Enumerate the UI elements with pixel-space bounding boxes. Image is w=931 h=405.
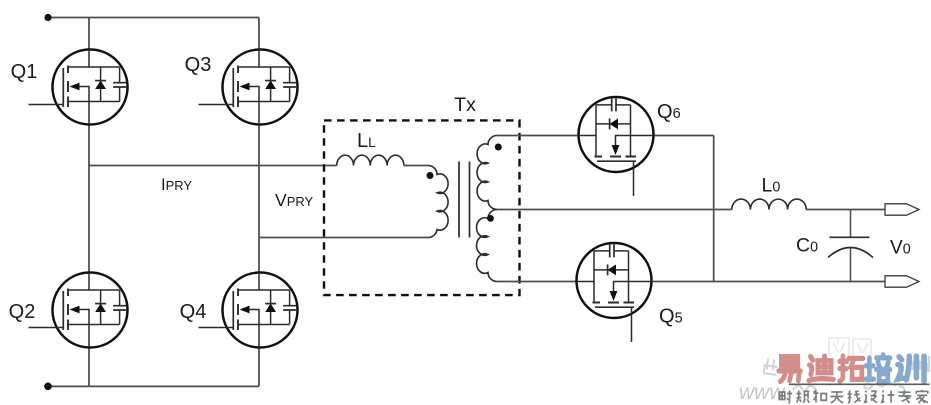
watermark: faint green marks — [864, 381, 909, 397]
transistor Q3 — [199, 50, 298, 125]
wire: center tap to L0 — [497, 209, 732, 211]
svg-text:LL: LL — [357, 130, 376, 152]
wire: secondary bottom to Q5 — [497, 281, 576, 283]
wire: top rail — [48, 17, 259, 19]
wire: bridge output to LL (IPRY wire) — [89, 165, 337, 167]
wire: left column below Q2 — [88, 348, 90, 387]
output terminal arrow negative — [885, 276, 919, 287]
svg-text:Q6: Q6 — [657, 101, 681, 123]
transformer primary winding — [429, 166, 449, 238]
svg-text:Q5: Q5 — [659, 306, 683, 328]
capacitor C0 — [828, 210, 873, 282]
svg-text:Q4: Q4 — [180, 301, 207, 323]
watermark: logo char 迪 (pink) — [809, 356, 833, 381]
transformer core — [459, 162, 470, 238]
node: secondary upper dot — [495, 144, 502, 151]
watermark: subtitle char 计 — [882, 391, 895, 403]
transformer secondary lower winding — [477, 210, 497, 282]
transistor Q5 — [577, 243, 652, 342]
wire: left column between Q1 and Q2 — [88, 125, 90, 273]
wire: left column above Q1 — [88, 18, 90, 50]
node: secondary lower dot — [487, 215, 494, 222]
watermark: underline — [789, 383, 930, 385]
transistor Q6 — [579, 97, 654, 196]
watermark: faint ghost glyph 世 — [763, 358, 779, 375]
wire: primary return (VPRY wire) — [259, 237, 429, 239]
wire: bottom rail — [48, 385, 259, 387]
svg-text:Q2: Q2 — [9, 301, 36, 323]
svg-text:IPRY: IPRY — [161, 176, 192, 194]
transformer secondary upper winding — [477, 136, 497, 210]
watermark: subtitle char 天 — [831, 392, 844, 403]
node: input negative terminal dot — [44, 383, 52, 391]
svg-text:Tx: Tx — [454, 94, 476, 116]
watermark: subtitle char 射 — [780, 391, 793, 403]
wire: Q6 source to right vertical — [654, 135, 714, 137]
watermark: subtitle char 专 — [899, 391, 912, 404]
watermark: subtitle char 设 — [865, 391, 878, 402]
svg-text:C0: C0 — [796, 235, 818, 257]
watermark: subtitle char 线 — [848, 391, 861, 403]
inductor L0 — [732, 199, 806, 209]
svg-text:Q1: Q1 — [11, 61, 38, 83]
wire: Q5 to output- rail — [652, 281, 885, 283]
node: primary dot — [427, 172, 434, 179]
svg-text:VPRY: VPRY — [275, 190, 314, 210]
wire: right column between Q3 and Q4 — [258, 125, 260, 273]
wire: secondary top to Q6 — [497, 135, 578, 137]
watermark: logo char 培 (blue) — [866, 355, 890, 382]
watermark: faint ghost curves under logo — [793, 386, 816, 391]
wire: right vertical Q6-Q5 common — [713, 136, 715, 282]
dashed box around transformer — [324, 120, 520, 295]
watermark: faint ghost letters right edge — [913, 356, 929, 372]
node: input positive terminal dot — [44, 14, 51, 21]
watermark: subtitle char 频 — [797, 391, 810, 403]
watermark: subtitle char 家 — [916, 390, 928, 403]
transistor Q4 — [199, 273, 298, 348]
wire: right column above Q3 — [258, 18, 260, 50]
wire: right column below Q4 — [258, 348, 260, 387]
watermark: logo char 训 (blue) — [898, 356, 924, 382]
inductor LL (leakage inductance) — [337, 155, 404, 165]
wire: L0 to output+ — [806, 209, 885, 211]
watermark: faint ghost glyphs above logo — [829, 338, 871, 356]
transistor Q2 — [29, 273, 128, 348]
watermark: logo char 拓 (pink) — [840, 356, 863, 381]
wire: LL to primary winding — [404, 165, 429, 167]
transistor Q1 — [29, 50, 128, 125]
watermark: subtitle char 和 — [814, 390, 827, 402]
svg-text:L0: L0 — [762, 175, 781, 197]
svg-text:V0: V0 — [890, 238, 911, 259]
svg-text:Q3: Q3 — [185, 54, 212, 76]
watermark: logo char 易 (pink) — [779, 357, 801, 382]
output terminal arrow positive — [885, 204, 919, 215]
